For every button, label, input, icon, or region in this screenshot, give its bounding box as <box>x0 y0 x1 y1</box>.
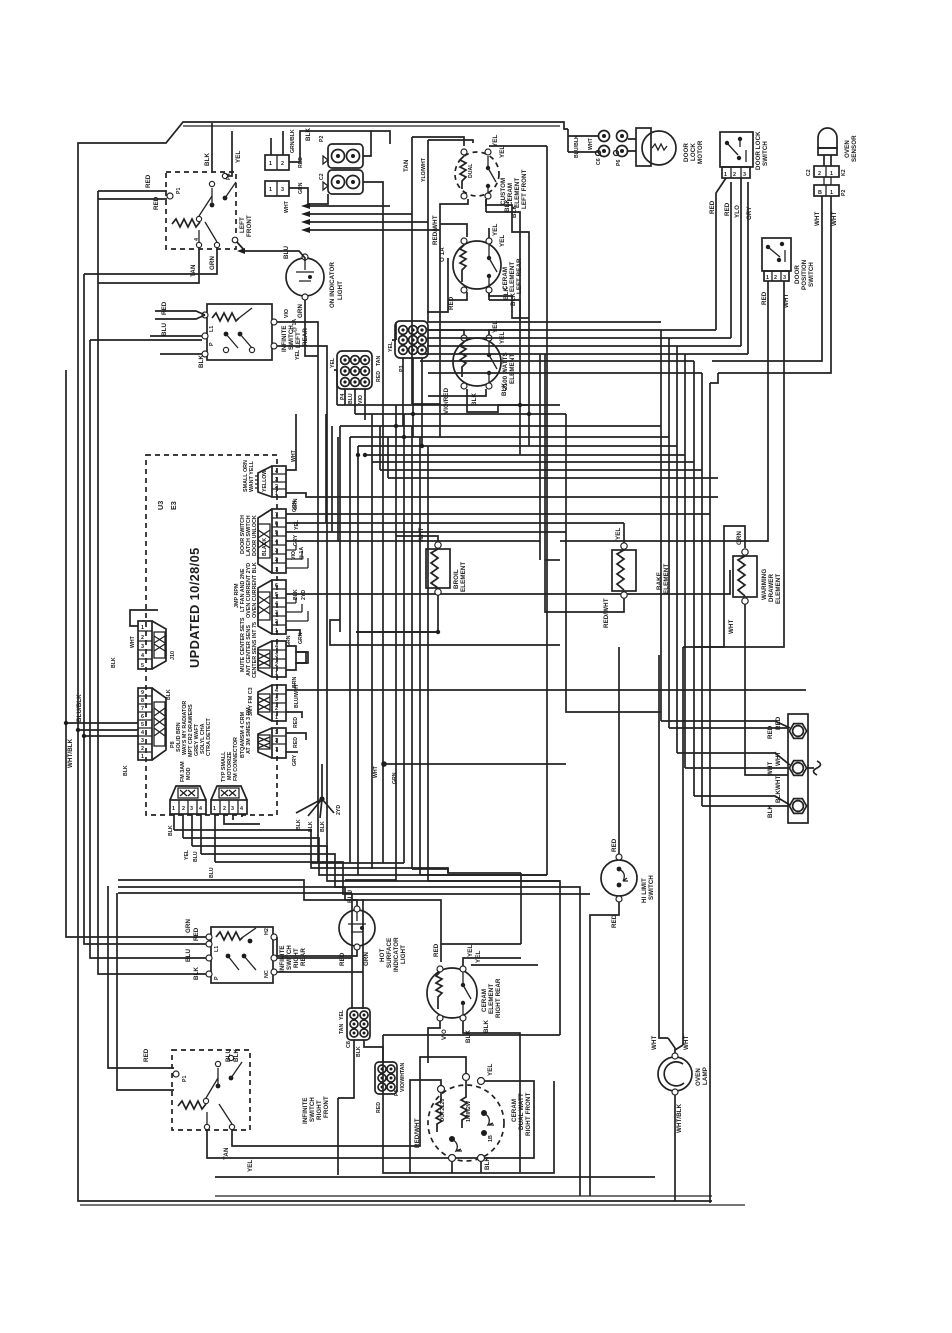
svg-text:YEL: YEL <box>615 528 622 540</box>
hi limit switch SW7 <box>601 838 637 928</box>
svg-text:POSITION: POSITION <box>801 259 808 290</box>
svg-text:OVEN CURRENT BLK: OVEN CURRENT BLK <box>252 562 258 618</box>
svg-text:1: 1 <box>275 715 278 721</box>
svg-text:BLU: BLU <box>283 246 290 259</box>
svg-text:1: 1 <box>141 754 144 760</box>
svg-text:2: 2 <box>275 619 278 625</box>
svg-text:WHT: WHT <box>284 200 290 213</box>
svg-text:BLK: BLK <box>305 128 312 141</box>
wire YLO from lock switch <box>734 178 741 346</box>
svg-text:YELLOW: YELLOW <box>262 470 268 492</box>
svg-text:4: 4 <box>275 644 278 650</box>
svg-text:SWITCH: SWITCH <box>762 141 769 166</box>
svg-text:CERAM: CERAM <box>481 989 488 1012</box>
svg-text:2: 2 <box>733 172 736 178</box>
svg-text:BLK: BLK <box>233 1049 240 1062</box>
label WARMING DRAWER ELEMENT <box>761 569 782 604</box>
wire RED from lock switch pin2 <box>724 182 731 338</box>
wire bake top <box>623 523 625 543</box>
svg-text:BTQAMSM 4 CRM: BTQAMSM 4 CRM <box>240 711 246 758</box>
bake element E5 <box>603 528 636 628</box>
svg-text:GRN: GRN <box>363 952 370 966</box>
custom ceram element left front E1 (dashed circle) <box>455 149 499 199</box>
svg-text:SWITCH: SWITCH <box>309 1097 316 1122</box>
wire RED vertical to E3 <box>427 247 448 312</box>
svg-text:RED: RED <box>161 301 168 315</box>
outer border frame of schematic <box>78 122 745 1205</box>
svg-text:MOD: MOD <box>186 767 192 780</box>
svg-text:FRONT: FRONT <box>323 1096 330 1118</box>
svg-text:NC: NC <box>264 970 270 978</box>
svg-text:4: 4 <box>199 806 202 812</box>
oven sensor RT1 <box>806 128 847 177</box>
svg-text:BLK: BLK <box>293 589 299 600</box>
wire WHT pair from sensor <box>712 196 838 373</box>
svg-text:MOTOR: MOTOR <box>697 140 704 164</box>
svg-text:3: 3 <box>275 548 278 554</box>
svg-text:BROIL: BROIL <box>453 569 460 589</box>
wire GRN from J4 small box <box>286 632 308 688</box>
node BLK star junction <box>296 764 342 832</box>
svg-text:4: 4 <box>275 469 278 475</box>
svg-text:WHT/BLK: WHT/BLK <box>676 1103 683 1133</box>
svg-text:DOOR LOCK: DOOR LOCK <box>755 131 762 170</box>
svg-text:RED: RED <box>143 1048 150 1062</box>
svg-text:BLK: BLK <box>775 790 782 803</box>
svg-text:2YD: 2YD <box>336 805 342 815</box>
svg-text:2: 2 <box>141 746 144 752</box>
on indicator light DS1 <box>286 254 344 308</box>
infinite switch right rear SW3 <box>206 927 277 983</box>
wire BLK from top border to SW1 <box>204 123 212 172</box>
label CUSTOM CERAM ELEMENT LEFT FRONT <box>500 169 528 209</box>
center bus verticals from P3 <box>392 322 422 446</box>
wire TAN from SW1 bottom <box>98 249 199 283</box>
svg-text:OVEN: OVEN <box>844 140 851 158</box>
svg-text:WHT: WHT <box>783 293 790 308</box>
svg-text:YEL: YEL <box>492 224 499 236</box>
svg-text:BLU: BLU <box>225 1049 232 1062</box>
svg-text:LT FAN AND 2NE: LT FAN AND 2NE <box>240 568 246 612</box>
infinite switch left front SW1 <box>166 172 236 249</box>
wire RED label at SW4 <box>143 1048 240 1062</box>
wire GRN from J2 pin7 <box>286 500 710 514</box>
svg-text:BLK: BLK <box>308 821 314 832</box>
svg-text:BLK: BLK <box>471 393 478 406</box>
relay connector 1-3 <box>265 181 304 213</box>
horizontal wires lower mid <box>311 560 560 881</box>
wire joins to board connector J8 <box>64 721 138 738</box>
wire RED pair into SW1 left <box>98 174 167 210</box>
svg-text:5: 5 <box>275 530 278 536</box>
svg-text:RED/WHT: RED/WHT <box>603 598 610 628</box>
svg-text:5: 5 <box>141 722 144 728</box>
wire bake bottom <box>545 560 624 612</box>
wire BLK below E8 <box>452 1157 491 1173</box>
svg-text:1: 1 <box>724 172 727 178</box>
svg-text:BLU/BLK: BLU/BLK <box>76 694 83 722</box>
svg-text:LIGHT: LIGHT <box>400 945 407 964</box>
svg-text:RED: RED <box>761 291 768 305</box>
wire BLU/BLK to lock connectors <box>568 129 598 158</box>
svg-text:P2: P2 <box>319 136 325 142</box>
connector P6 <box>614 131 628 167</box>
svg-text:P: P <box>214 976 220 980</box>
svg-text:RED: RED <box>339 952 346 966</box>
svg-text:WHT: WHT <box>130 635 136 648</box>
svg-text:SURFACE: SURFACE <box>386 938 393 968</box>
svg-text:3: 3 <box>141 738 144 744</box>
svg-text:3: 3 <box>190 806 193 812</box>
svg-text:YEL: YEL <box>499 146 506 158</box>
svg-text:CERAM: CERAM <box>502 267 509 290</box>
wire RED/WHT at E8 <box>410 1080 441 1173</box>
infinite switch right front SW4 <box>172 1050 250 1130</box>
label BLU/BLK bus <box>76 694 83 722</box>
wire BLU into SW2 <box>150 323 205 368</box>
label DOOR LOCK MOTOR <box>683 140 704 164</box>
svg-text:DOOR SWITCH: DOOR SWITCH <box>240 515 246 554</box>
label INFINITE SWITCH RIGHT FRONT <box>302 1096 330 1124</box>
svg-text:DOOR UNLOCK: DOOR UNLOCK <box>252 515 258 556</box>
svg-text:GRN: GRN <box>298 632 304 644</box>
connector J6 on board <box>240 707 286 758</box>
svg-text:HI LIMIT: HI LIMIT <box>641 878 648 903</box>
svg-text:YEL: YEL <box>339 1009 345 1020</box>
wire GRN from J1 <box>286 493 718 510</box>
label OVEN LAMP <box>695 1067 709 1086</box>
svg-text:RED: RED <box>433 943 440 957</box>
connector P4 grid <box>330 351 382 404</box>
svg-text:1: 1 <box>141 625 144 631</box>
svg-text:GRN: GRN <box>297 304 304 318</box>
ceram element left rear E2 <box>453 238 501 293</box>
svg-text:LEFT FRONT: LEFT FRONT <box>521 169 528 209</box>
svg-text:CTRA DETECT: CTRA DETECT <box>206 717 212 756</box>
svg-text:LAMP: LAMP <box>702 1067 709 1085</box>
svg-text:INDICATOR: INDICATOR <box>393 937 400 972</box>
svg-text:4: 4 <box>141 730 144 736</box>
svg-text:BLU: BLU <box>185 949 192 962</box>
label BROIL ELEMENT <box>453 562 467 592</box>
svg-text:RED: RED <box>775 716 782 730</box>
wire BLK from C8 down <box>338 1040 383 1098</box>
svg-text:FRONT: FRONT <box>246 215 253 237</box>
svg-text:L1: L1 <box>214 946 220 952</box>
label OVEN SENSOR <box>844 135 858 162</box>
svg-text:LEFT: LEFT <box>239 217 246 233</box>
svg-text:YEL: YEL <box>499 235 506 247</box>
svg-text:4: 4 <box>275 688 278 694</box>
svg-text:RED: RED <box>153 196 160 210</box>
svg-text:1: 1 <box>275 747 278 753</box>
svg-text:7: 7 <box>275 512 278 518</box>
wire YEL from J2 pin6 <box>286 414 624 530</box>
svg-text:GRY: GRY <box>746 206 753 220</box>
svg-text:3: 3 <box>743 172 746 178</box>
svg-text:JMP RPM: JMP RPM <box>234 583 240 608</box>
nested wires from J9 J10 to bottom right <box>118 830 590 1196</box>
wire RED into E2 <box>440 224 467 310</box>
wire BLK below E2 <box>448 287 529 330</box>
svg-text:C8: C8 <box>346 1041 352 1048</box>
svg-text:O 1A: O 1A <box>439 247 446 262</box>
connector J2 on board <box>240 509 286 573</box>
svg-text:ELEMENT: ELEMENT <box>460 562 467 592</box>
svg-text:WHT: WHT <box>767 761 774 776</box>
svg-text:@ 1A: @ 1A <box>292 319 298 332</box>
svg-text:3: 3 <box>275 477 278 483</box>
wire VIO from SW2 right <box>277 309 318 863</box>
svg-text:U3: U3 <box>156 501 165 510</box>
wire YEL pair at E2 <box>489 224 506 247</box>
svg-text:2: 2 <box>281 161 284 167</box>
node WHT GRN junction <box>373 761 566 784</box>
label INFINITE SWITCH RIGHT REAR <box>279 945 307 972</box>
center bus verticals from P4 <box>334 370 365 420</box>
svg-text:3: 3 <box>231 806 234 812</box>
svg-text:4: 4 <box>240 806 243 812</box>
svg-text:DUAL WATT: DUAL WATT <box>518 1093 525 1130</box>
svg-text:UPDATED 10/28/05: UPDATED 10/28/05 <box>187 547 202 668</box>
warming drawer element E6 <box>728 531 757 634</box>
label INFINITE SWITCH LEFT REAR <box>281 325 309 352</box>
svg-text:BLU/WHT: BLU/WHT <box>294 683 300 708</box>
svg-text:VIO: VIO <box>284 309 290 318</box>
label BAKE ELEMENT <box>656 564 670 594</box>
svg-text:BLK: BLK <box>503 287 510 300</box>
wire RED from J6 <box>286 733 306 748</box>
svg-text:REAR: REAR <box>302 328 309 346</box>
wire warming bottom WHT <box>744 604 746 647</box>
svg-text:RED/WHT: RED/WHT <box>414 1118 421 1148</box>
svg-text:1: 1 <box>213 806 216 812</box>
svg-text:BLU: BLU <box>347 890 354 903</box>
svg-text:6: 6 <box>141 714 144 720</box>
svg-text:BLK: BLK <box>166 689 172 700</box>
svg-text:5: 5 <box>275 592 278 598</box>
svg-text:DOOR: DOOR <box>794 265 801 284</box>
svg-text:BLK: BLK <box>356 1046 362 1057</box>
wire BLK from J3 <box>286 570 730 600</box>
svg-text:YEL: YEL <box>467 945 474 957</box>
oven lamp DS2 <box>658 1038 692 1095</box>
svg-text:TAN: TAN <box>339 1023 345 1034</box>
wire BLU down from bus to ceram right rear <box>277 887 521 1009</box>
connector P2 sensor <box>814 177 847 196</box>
svg-text:9: 9 <box>141 690 144 696</box>
svg-text:WHT/BLK: WHT/BLK <box>67 738 74 768</box>
ceram dual watt right front E8 <box>428 1081 504 1162</box>
wire YEL pair at E3 <box>427 321 529 344</box>
broil element E4 <box>418 527 450 595</box>
relay connector 1-2 <box>265 129 304 170</box>
wire VIO from J2 pin4 <box>286 437 540 568</box>
svg-text:MUTE CENTER SETS: MUTE CENTER SETS <box>240 617 246 672</box>
svg-text:VIO/RED: VIO/RED <box>443 387 450 414</box>
svg-text:1: 1 <box>766 275 769 281</box>
svg-text:DOOR: DOOR <box>683 143 690 162</box>
connector J1 on board <box>243 460 286 497</box>
wire GRN label into SW3 <box>185 919 200 980</box>
connector J7 left of board <box>138 621 176 669</box>
svg-text:2YD: 2YD <box>301 590 307 600</box>
svg-text:RED: RED <box>611 838 618 852</box>
svg-text:GRN: GRN <box>209 256 216 270</box>
svg-text:GRN: GRN <box>292 500 298 512</box>
svg-text:BLU: BLU <box>348 393 354 404</box>
svg-text:CENTER SENS INT 75: CENTER SENS INT 75 <box>252 622 258 678</box>
door lock motor M1 <box>628 128 676 166</box>
connector C2 <box>319 170 363 194</box>
wire YEL pair at E1 <box>412 135 547 158</box>
connector P2 <box>319 136 363 168</box>
svg-text:1: 1 <box>172 806 175 812</box>
svg-text:P3: P3 <box>399 366 405 372</box>
svg-text:LIGHT: LIGHT <box>337 281 344 300</box>
connector P3 grid <box>388 321 428 372</box>
svg-text:P: P <box>209 342 215 346</box>
svg-text:WHT: WHT <box>683 1035 690 1050</box>
svg-text:RED: RED <box>293 717 299 728</box>
wire WHT/BLK lamp bottom <box>675 1095 683 1201</box>
door lock switch SW5 <box>720 132 753 178</box>
connector J9 bottom of board <box>170 761 206 814</box>
label HOT SURFACE INDICATOR LIGHT <box>379 937 407 972</box>
svg-text:ELEMENT: ELEMENT <box>488 984 495 1014</box>
ceram element E3 <box>453 335 501 389</box>
svg-text:5: 5 <box>141 663 144 669</box>
svg-text:4: 4 <box>141 653 144 659</box>
svg-text:WHT: WHT <box>814 211 821 226</box>
svg-text:BLK: BLK <box>111 657 117 668</box>
svg-text:YLO/WHT: YLO/WHT <box>421 157 427 182</box>
svg-text:WARMING: WARMING <box>761 569 768 600</box>
svg-text:WHT: WHT <box>651 1035 658 1050</box>
svg-text:WHT: WHT <box>775 751 782 766</box>
svg-text:WHT: WHT <box>728 619 735 634</box>
ground symbol at terminal block <box>807 761 821 775</box>
wire VIO/RED below E3 <box>412 383 529 414</box>
svg-text:P6: P6 <box>616 160 622 166</box>
enclosure box around E8 <box>215 1035 655 1177</box>
svg-text:BLK: BLK <box>296 819 302 830</box>
door position switch SW6 <box>762 238 791 281</box>
label HI LIMIT SWITCH <box>641 875 655 903</box>
wire broil top <box>396 536 438 542</box>
wire BLU from J10 <box>209 814 260 878</box>
wire GRN from SW1 bottom <box>84 249 217 274</box>
connector P5 grid <box>375 1062 406 1113</box>
svg-text:YEL: YEL <box>492 135 499 147</box>
svg-text:2: 2 <box>275 706 278 712</box>
svg-text:BLK: BLK <box>484 1157 491 1170</box>
svg-text:INFINITE: INFINITE <box>281 325 288 352</box>
svg-text:BLK: BLK <box>767 805 774 818</box>
wire WHT from J1 <box>286 414 297 470</box>
label DOOR POSITION SWITCH <box>794 259 815 290</box>
wire WHT at J7 <box>111 610 158 668</box>
svg-text:C2: C2 <box>319 173 325 180</box>
svg-text:ELEMENT: ELEMENT <box>509 354 516 384</box>
connector J5 on board <box>248 685 286 721</box>
svg-text:RED: RED <box>611 914 618 928</box>
connector J3 on board <box>234 562 308 634</box>
wire GRN from J3 pin1 <box>286 630 300 647</box>
hot surface indicator light DS3 <box>339 890 375 950</box>
svg-text:P1: P1 <box>182 1076 188 1082</box>
wire GRY from J2 pin5 <box>286 426 566 546</box>
svg-text:2: 2 <box>818 171 821 177</box>
svg-text:OVEN: OVEN <box>695 1068 702 1086</box>
svg-text:FM CONNECTOR: FM CONNECTOR <box>233 737 239 781</box>
svg-text:TAN: TAN <box>376 355 382 366</box>
wire RED from J5 <box>286 712 302 728</box>
wire RED into SW2 <box>155 301 205 319</box>
svg-text:4: 4 <box>275 539 278 545</box>
wire RED from door position switch <box>560 281 768 541</box>
connector C8 grid <box>339 1008 370 1057</box>
junction dots on mesh <box>356 403 531 634</box>
connector J4 on board <box>240 617 286 678</box>
svg-text:3: 3 <box>141 644 144 650</box>
svg-text:YEL: YEL <box>330 357 336 368</box>
wire YEL from SW4 bottom <box>207 1064 534 1172</box>
svg-text:RED: RED <box>724 202 731 216</box>
wire hi limit top <box>566 414 661 854</box>
svg-text:BLK: BLK <box>123 765 129 776</box>
svg-text:BLU: BLU <box>161 323 168 336</box>
svg-text:BLACK: BLACK <box>262 538 268 556</box>
svg-text:WHT: WHT <box>588 137 594 150</box>
svg-text:BAKE: BAKE <box>656 572 663 590</box>
infinite switch left rear SW2 <box>160 304 277 360</box>
svg-text:4: 4 <box>194 238 200 241</box>
svg-text:BLK: BLK <box>168 825 174 836</box>
svg-text:1: 1 <box>275 567 278 573</box>
svg-text:TAN: TAN <box>403 159 410 172</box>
wire RED pair into TB1 <box>661 716 790 739</box>
svg-text:BLU: BLU <box>193 851 199 862</box>
svg-text:ELEMENT: ELEMENT <box>775 574 782 604</box>
svg-text:YEL: YEL <box>487 1064 494 1076</box>
svg-text:WHT: WHT <box>373 765 379 778</box>
svg-text:WHT: WHT <box>291 449 297 462</box>
wire BLK below E1 <box>432 199 529 437</box>
connector J8 left of board <box>138 688 212 760</box>
svg-text:6: 6 <box>275 521 278 527</box>
wire TAN from SW4 bottom <box>223 1057 470 1160</box>
svg-text:3: 3 <box>281 187 284 193</box>
svg-text:RIGHT FRONT: RIGHT FRONT <box>525 1093 532 1136</box>
svg-text:1: 1 <box>830 190 833 196</box>
svg-text:RED: RED <box>145 174 152 188</box>
label DOOR LOCK SWITCH <box>755 131 769 170</box>
svg-text:1: 1 <box>275 628 278 634</box>
wire BLK below J8 <box>123 689 172 776</box>
svg-text:DRAWER: DRAWER <box>768 573 775 602</box>
svg-text:RED: RED <box>376 1102 382 1113</box>
svg-text:BLK: BLK <box>198 355 205 368</box>
svg-text:1MIN2W: 1MIN2W <box>466 1100 472 1122</box>
svg-text:3: 3 <box>783 275 786 281</box>
wire YEL from SW2 right <box>277 346 327 869</box>
wire WHT from door position switch <box>683 281 790 647</box>
svg-text:RED: RED <box>193 927 200 941</box>
connector J10 bottom of board <box>211 737 247 814</box>
svg-text:1: 1 <box>275 491 278 497</box>
svg-text:3: 3 <box>275 730 278 736</box>
